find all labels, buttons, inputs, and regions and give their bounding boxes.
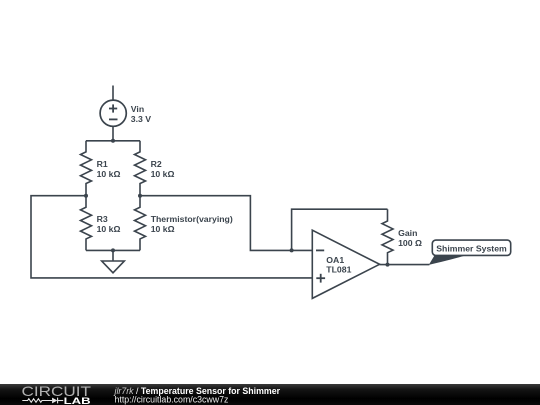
svg-text:3.3 V: 3.3 V xyxy=(131,114,151,124)
svg-text:Vin: Vin xyxy=(131,104,144,114)
svg-text:R3: R3 xyxy=(97,214,108,224)
svg-text:100 Ω: 100 Ω xyxy=(398,238,422,248)
svg-text:LAB: LAB xyxy=(64,396,91,405)
svg-text:10 kΩ: 10 kΩ xyxy=(151,224,175,234)
svg-text:http://circuitlab.com/c3cww7z: http://circuitlab.com/c3cww7z xyxy=(115,394,229,404)
svg-text:Thermistor(varying): Thermistor(varying) xyxy=(151,214,233,224)
svg-text:TL081: TL081 xyxy=(326,265,351,275)
svg-text:10 kΩ: 10 kΩ xyxy=(151,169,175,179)
svg-text:10 kΩ: 10 kΩ xyxy=(97,224,121,234)
svg-text:R2: R2 xyxy=(151,159,162,169)
svg-text:Gain: Gain xyxy=(398,228,417,238)
svg-text:OA1: OA1 xyxy=(326,255,344,265)
svg-text:Shimmer System: Shimmer System xyxy=(436,243,507,253)
svg-text:R1: R1 xyxy=(97,159,108,169)
svg-text:10 kΩ: 10 kΩ xyxy=(97,169,121,179)
